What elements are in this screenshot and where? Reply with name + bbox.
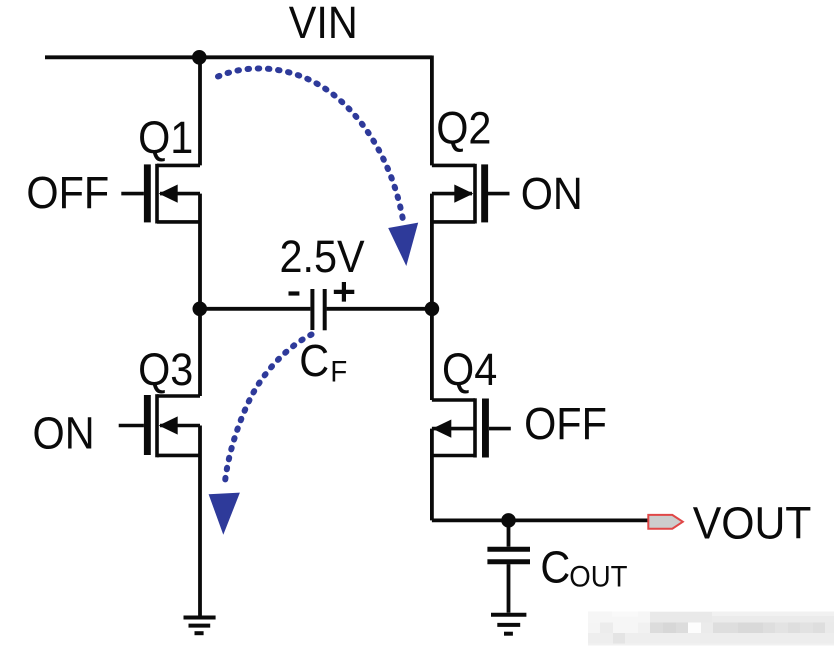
wire Q3 source down to ground <box>198 426 202 618</box>
wire VIN top rail <box>45 55 432 59</box>
node VIN junction dot <box>192 50 207 65</box>
node VOUT junction dot <box>501 513 516 528</box>
wire right vertical rail to Q2 drain <box>430 56 434 166</box>
Q4 gate lead <box>489 427 511 431</box>
svg-text:VOUT: VOUT <box>693 498 812 548</box>
Q4 bulk lead <box>432 427 474 431</box>
svg-text:F: F <box>330 355 347 388</box>
Q2 bulk lead <box>432 192 472 196</box>
svg-text:OFF: OFF <box>524 400 607 450</box>
Q1 gate lead <box>121 192 144 196</box>
transistor Q1 <box>121 164 200 224</box>
svg-text:VIN: VIN <box>289 0 358 48</box>
wire node A down to Q3 drain <box>198 309 202 396</box>
svg-text:OUT: OUT <box>569 560 627 593</box>
Q3 bulk lead <box>160 424 200 428</box>
svg-text:C: C <box>299 336 329 386</box>
Q3 gate lead <box>119 424 144 428</box>
wire CF right plate to node B <box>327 307 432 311</box>
wire Q2 source to node B <box>430 194 434 309</box>
wire Q1 source to node A <box>198 194 202 309</box>
Q2 drain lead <box>432 164 475 168</box>
svg-text:Q1: Q1 <box>138 113 193 163</box>
svg-text:Q3: Q3 <box>138 345 193 395</box>
node A junction dot (left of CF) <box>193 302 208 317</box>
svg-text:Q2: Q2 <box>436 104 491 154</box>
Q1 bulk arrow <box>159 185 178 203</box>
Q1 gate plate <box>144 164 151 222</box>
CF left plate <box>310 289 314 330</box>
COUT top plate <box>487 547 530 552</box>
Q4 source lead <box>432 454 475 458</box>
Q1 source lead <box>157 220 200 224</box>
svg-text:Q4: Q4 <box>442 345 497 395</box>
watermark mosaic (pixelated logo, bottom right) <box>588 612 834 646</box>
Q2 source lead <box>432 220 475 224</box>
wire VOUT rail <box>432 519 649 523</box>
wire node B down to Q4 drain <box>430 309 434 400</box>
svg-text:OFF: OFF <box>26 168 109 218</box>
capacitor CF <box>312 289 324 330</box>
Q4 drain lead <box>432 398 475 402</box>
wire VOUT node to COUT top plate <box>507 520 511 546</box>
transistor Q2 <box>432 164 510 224</box>
wire COUT bottom plate to ground <box>507 564 511 613</box>
svg-text:ON: ON <box>521 169 583 219</box>
Q3 source lead <box>157 454 200 458</box>
Q2 gate lead <box>487 192 509 196</box>
svg-text:C: C <box>540 543 570 593</box>
Q3 drain lead <box>157 394 200 398</box>
Q3 bulk arrow <box>159 416 178 434</box>
capacitor COUT <box>487 549 530 562</box>
wire node A to CF left plate <box>200 307 310 311</box>
Q4 bulk arrow <box>432 420 451 438</box>
COUT bottom plate <box>487 559 530 564</box>
transistor Q4 <box>432 398 511 457</box>
Q2 gate plate <box>481 164 488 222</box>
wire Q4 source down to VOUT rail corner <box>430 429 434 521</box>
wire left vertical VIN node to Q1 drain <box>198 57 202 165</box>
svg-text:2.5V: 2.5V <box>280 232 365 282</box>
Q1 bulk lead <box>160 192 200 196</box>
charge-flow arrow 2 (CF to ground via Q3, dotted arc) <box>209 335 312 535</box>
ground (right, below COUT) <box>491 615 526 634</box>
Q1 channel line <box>155 164 159 224</box>
node B junction dot (right of CF) <box>425 302 440 317</box>
ground (left, below Q3) <box>184 618 216 634</box>
VOUT terminal pin symbol <box>648 515 683 529</box>
transistor Q3 <box>119 394 200 457</box>
Q4 channel line <box>473 398 477 457</box>
Q2 channel line <box>473 164 477 224</box>
Q3 channel line <box>155 394 159 457</box>
label plus polarity mark <box>334 282 355 302</box>
charge-flow arrow 1 (VIN node to Q2/CF, dotted arc) <box>218 68 418 266</box>
label minus polarity mark <box>289 291 300 295</box>
svg-text:ON: ON <box>33 409 95 459</box>
Q2 bulk arrow <box>454 185 473 203</box>
Q3 gate plate <box>144 395 151 455</box>
CF right plate <box>323 289 327 330</box>
Q1 drain lead <box>157 164 200 168</box>
Q4 gate plate <box>482 399 489 458</box>
